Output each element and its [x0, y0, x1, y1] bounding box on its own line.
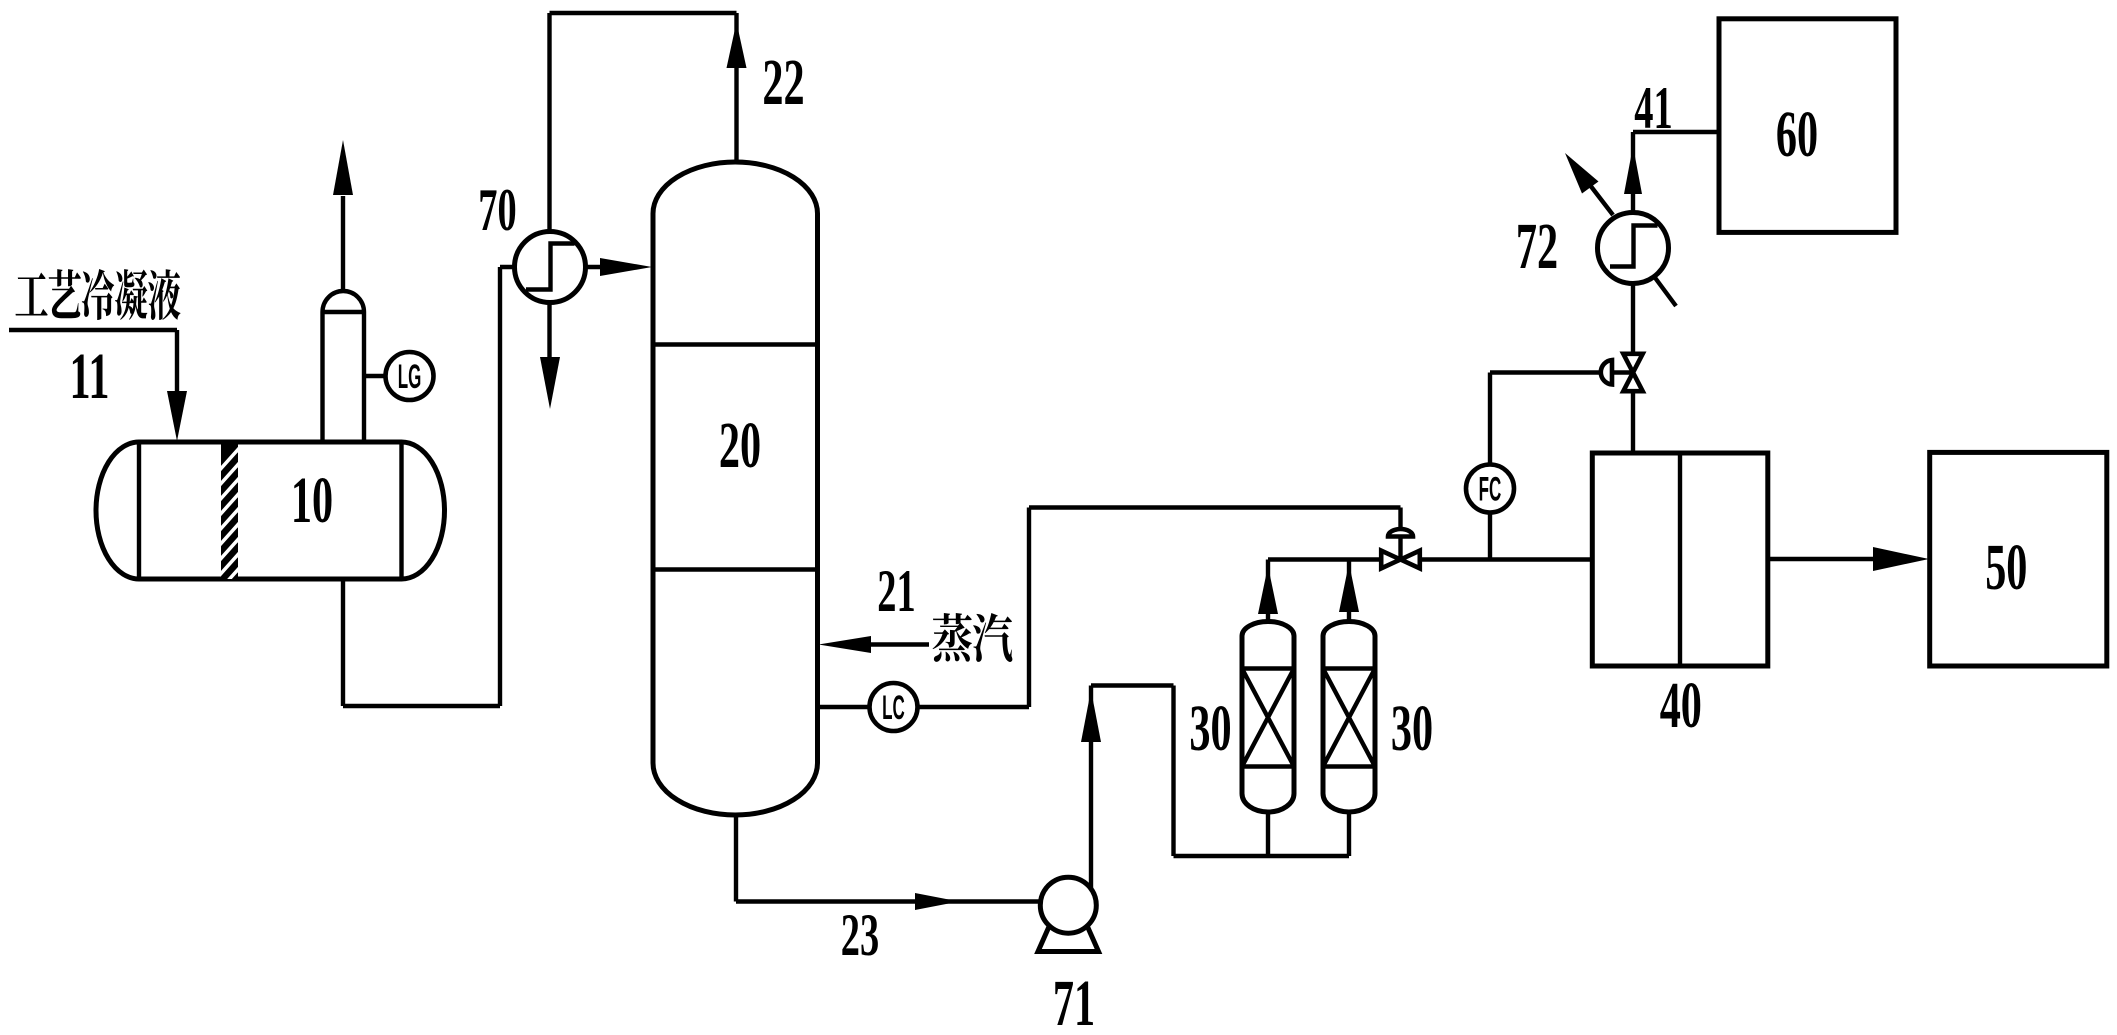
svg-text:20: 20 [719, 409, 761, 482]
instrument FC [1488, 513, 1492, 560]
arrow: into unit 50 [1873, 547, 1929, 571]
arrow: line 41 up [1624, 146, 1642, 194]
compressor 72 adjustable diagonal [1583, 176, 1676, 306]
wire: feed line 11 horizontal [9, 328, 177, 332]
arrow: pump discharge up [1081, 690, 1101, 742]
svg-text:71: 71 [1053, 967, 1095, 1035]
column 20 lower section line [653, 567, 818, 571]
arrow: steam into column [819, 636, 872, 653]
pump 71 base [1038, 926, 1099, 952]
unit 40 (dryer, box) [1592, 453, 1768, 666]
wire: dryer 40 to unit 50 [1768, 557, 1878, 561]
svg-text:21: 21 [877, 557, 915, 624]
arrow: overhead vapor up [727, 22, 747, 68]
wire: column overhead to exchanger 70 (top loop) [550, 13, 737, 232]
adsorber 30 (right) [1323, 622, 1375, 813]
wire: LC connector from column [818, 705, 869, 709]
arrow: right riser up [1339, 563, 1359, 612]
svg-text:60: 60 [1776, 98, 1818, 171]
wire: column 20 bottoms line 23 to pump 71 [736, 815, 1041, 902]
svg-text:23: 23 [841, 901, 879, 968]
adsorber 30 right bed lines [1323, 669, 1375, 767]
compressor 72 [1598, 213, 1669, 284]
label: steam (Chinese) [933, 613, 1013, 662]
svg-text:FC: FC [1479, 470, 1502, 508]
svg-text:30: 30 [1391, 692, 1433, 765]
unit 40 divider [1678, 453, 1682, 666]
svg-text:50: 50 [1985, 531, 2027, 604]
arrow: into column 20 feed nozzle [600, 258, 652, 276]
wire: adsorber risers [1268, 560, 1349, 623]
wire: adsorber bottom stubs [1268, 812, 1349, 856]
wire: vessel 10 bottom outlet loop to exchanger 70 [343, 267, 515, 706]
wire: LC signal to valve on adsorber header [918, 508, 1401, 708]
wire: product header to dryer 40 [1268, 557, 1593, 561]
wire: compressor 72 to unit 60 (line 41) [1633, 132, 1719, 213]
instrument LC [870, 683, 918, 731]
arrow: bottoms flow right [915, 893, 959, 910]
svg-text:70: 70 [478, 176, 516, 243]
vessel 10 standpipe [323, 312, 365, 442]
wire: LG connector [364, 374, 386, 378]
arrow: cooling outlet down [540, 357, 560, 409]
valve (LC controlled) on header [1381, 529, 1420, 568]
control valve on line 41 [1601, 354, 1643, 391]
arrow: vent up [333, 140, 353, 195]
wire: vent line up from standpipe [341, 196, 345, 291]
adsorber 30 left X packing [1242, 669, 1294, 767]
vessel 10 left head seam [137, 442, 141, 579]
compressor 72 internal baffle [1610, 226, 1658, 267]
standpipe dome [323, 291, 365, 312]
svg-text:72: 72 [1516, 210, 1558, 283]
arrow: feed into vessel 10 [167, 391, 187, 441]
vessel 10 hatched baffle band [217, 442, 242, 608]
adsorber 30 (left) [1242, 622, 1294, 813]
svg-text:10: 10 [291, 464, 333, 537]
svg-text:LC: LC [882, 689, 905, 727]
svg-text:40: 40 [1660, 669, 1702, 742]
label: process condensate (Chinese) [16, 269, 181, 320]
svg-text:30: 30 [1189, 692, 1231, 765]
svg-text:41: 41 [1634, 74, 1672, 141]
unit 60 (box) [1719, 19, 1896, 233]
heat exchanger 70 [515, 232, 586, 303]
wire: steam line 21 [868, 642, 929, 646]
wire: feed line 11 vertical into vessel 10 [175, 330, 179, 400]
pump 71 [1040, 877, 1096, 933]
vessel 10 (horizontal drum) [96, 442, 445, 579]
unit 50 (box) [1930, 452, 2107, 666]
svg-text:LG: LG [398, 358, 422, 396]
wire: exchanger 70 outlet to column 20 [586, 265, 607, 269]
column 20 upper section line [653, 342, 818, 346]
exchanger 70 internal baffle [526, 244, 575, 290]
column 20 (stripping tower) [653, 162, 818, 815]
vessel 10 right shell seam [399, 442, 403, 579]
svg-text:11: 11 [70, 340, 110, 413]
wire: FC signal to control valve 41 line [1490, 373, 1633, 465]
wire: pump discharge up and over to adsorber bottoms [1091, 686, 1349, 890]
adsorber 30 right X packing [1323, 669, 1375, 767]
instrument LG [386, 352, 434, 400]
wire: exchanger 70 cooling outlet down [547, 303, 551, 363]
arrow: diagonal up-left [1565, 153, 1599, 194]
wire: dryer 40 top to compressor 72 [1631, 284, 1635, 454]
svg-text:22: 22 [762, 46, 804, 119]
adsorber 30 left bed lines [1242, 669, 1294, 767]
arrow: left riser up [1258, 566, 1278, 614]
